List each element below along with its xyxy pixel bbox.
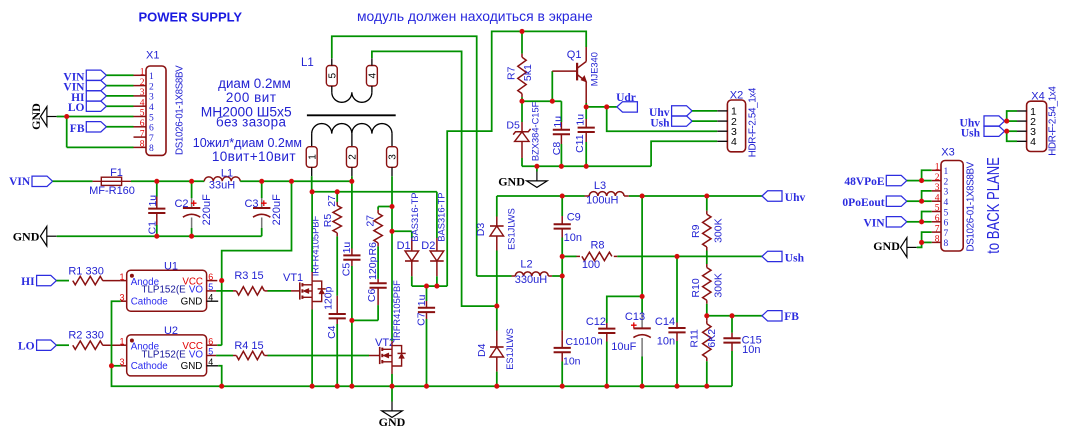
svg-text:GND: GND [873,239,900,253]
junction C1 top [154,179,159,184]
svg-text:6: 6 [208,272,213,282]
wire U2 VCC from vertical [217,344,221,346]
junction 0PoEout [919,199,924,204]
wire VT2 drain up [391,341,393,346]
junction U2 cathode [109,363,114,368]
svg-text:диам 0.2мм: диам 0.2мм [218,76,291,91]
svg-text:8: 8 [935,235,940,245]
power symbol GND below VT2 [391,386,393,401]
global label FB output [762,311,782,321]
wire Udr node [586,106,607,108]
svg-text:220uF: 220uF [201,194,213,225]
svg-text:1u: 1u [341,242,353,254]
junction C13 bottom [640,384,645,389]
svg-text:33uH: 33uH [209,180,235,192]
wire R6 to C6 [377,246,379,279]
junction C7 bottom [424,384,429,389]
svg-text:X2: X2 [730,90,743,102]
junction U1 VCC [219,278,224,283]
U1 pin 5 stub [207,290,217,292]
svg-text:4: 4 [944,198,949,208]
U1 pin 3 stub [121,300,127,302]
svg-text:X3: X3 [941,147,954,159]
svg-text:C13: C13 [625,311,645,323]
svg-text:100: 100 [582,259,600,271]
wire primary drain rail [312,191,437,193]
junction C13 riser [640,193,645,198]
wire [106,95,133,97]
X4 pin 4 stub [1017,140,1027,142]
resistor R6 27 [377,207,379,210]
capacitor C6 120p [377,279,379,283]
svg-text:220uF: 220uF [271,194,283,225]
U2 pin 1 stub [121,344,127,346]
svg-text:Ush: Ush [961,128,981,140]
X3 pin 3 stub [932,190,941,192]
svg-text:3: 3 [935,183,940,193]
junction D1 branch [389,229,394,234]
svg-text:5: 5 [328,73,339,79]
junction C4 bottom [335,384,340,389]
capacitor C9 10n [561,196,563,216]
svg-text:GND: GND [379,415,406,429]
junction D3/D4/pin4 node [494,304,499,309]
svg-text:C5: C5 [340,263,352,277]
wire VIN to F1 [53,180,93,182]
svg-text:D3: D3 [475,223,487,237]
svg-text:R6: R6 [367,242,379,256]
wire R6 branch [378,206,392,208]
svg-text:C2: C2 [174,198,188,210]
svg-text:Cathode: Cathode [131,296,169,307]
svg-text:D4: D4 [476,343,488,357]
svg-text:10n: 10n [584,336,602,348]
U2 pin 5 stub [207,355,217,357]
wire pin3 down to VT2 drain [391,176,393,341]
junction GND X3 [919,240,924,245]
svg-text:IRFR4105PBF: IRFR4105PBF [392,280,402,341]
resistor R7 5k1 [521,31,523,53]
wire F1 to L1 [131,180,204,182]
svg-text:8: 8 [140,140,145,150]
global label Ush output [762,251,782,261]
capacitor C11 1u [585,107,587,119]
junction X1 GND [64,114,69,119]
svg-text:BZX384-C15F: BZX384-C15F [530,101,540,161]
connector X3 DS1026-01-1X8S8BV [941,161,963,252]
svg-text:120p: 120p [323,286,335,310]
svg-text:3: 3 [944,188,949,198]
svg-text:1: 1 [140,68,145,78]
inductor L2 330uH [512,275,516,277]
junction GND stub [534,164,539,169]
svg-text:1: 1 [944,167,949,177]
resistor R10 300K [706,264,708,268]
junction R6 branch [389,204,394,209]
svg-text:BAS316-TP: BAS316-TP [436,193,446,242]
wire R8 to Ush label [617,255,762,257]
wire HI to R1 [56,280,69,282]
X3 pin 1 stub [932,169,941,171]
junction at transformer pin2 [349,179,354,184]
svg-text:Cathode: Cathode [131,361,169,372]
wire Udr node to X2 pin3 [607,107,718,131]
diode D3 ES1JLWS [496,196,498,217]
wire Q1 collector [585,47,587,62]
svg-text:TLP152(E: TLP152(E [142,285,187,296]
junction C14 bottom [674,384,679,389]
svg-text:X4: X4 [1031,90,1044,102]
U1 pin 6 stub [207,280,218,282]
svg-text:GND: GND [181,361,203,372]
svg-text:Uhv: Uhv [785,192,806,204]
svg-text:D5: D5 [506,120,520,132]
wire VT1 drain up [311,272,313,281]
wire [692,110,717,112]
wire D1 anode [392,230,412,232]
svg-text:1u: 1u [147,195,159,207]
X1 pin 4 stub [134,105,147,107]
svg-text:GND: GND [498,175,525,189]
capacitor C14 10n [676,256,678,322]
wire LO to R2 [56,344,69,346]
wire [907,200,922,202]
svg-text:1: 1 [149,72,154,82]
capacitor C7 1u [426,286,428,301]
wire VT2 source down [391,366,393,374]
X1 pin 5 stub [134,116,147,118]
svg-text:3: 3 [388,154,399,160]
svg-text:GND: GND [181,296,203,307]
U2 pin 4 stub [207,365,219,367]
svg-text:R4 15: R4 15 [234,340,263,352]
svg-text:4: 4 [935,193,940,203]
wire [106,74,133,76]
svg-text:U2: U2 [164,325,178,337]
svg-text:27: 27 [326,195,338,207]
svg-text:C14: C14 [655,316,675,328]
svg-text:27: 27 [365,215,377,227]
svg-text:C3: C3 [244,198,258,210]
svg-text:C6: C6 [366,289,378,303]
wire [692,120,717,122]
diode D2 BAS316-TP [436,238,438,251]
svg-text:L2: L2 [520,258,532,270]
svg-text:7: 7 [935,224,940,234]
svg-text:VIN: VIN [9,176,31,188]
svg-text:5: 5 [944,208,949,218]
junction C2 bottom [189,234,194,239]
svg-text:5: 5 [149,113,154,123]
wire [907,221,922,223]
wire [106,105,133,107]
svg-text:R3 15: R3 15 [234,270,263,282]
junction R7/D5/base node [519,99,524,104]
svg-text:FB: FB [70,123,85,135]
junction C15 top [729,313,734,318]
wire L1 to transformer center tap [240,180,352,182]
junction D2 cathode [434,284,439,289]
svg-text:0PoEout: 0PoEout [842,197,884,209]
svg-text:C12: C12 [586,316,606,328]
X2 pin 4 stub [717,140,727,142]
X4 pin 2 stub [1017,120,1027,122]
junction R11 bottom [704,384,709,389]
svg-text:6: 6 [149,124,154,134]
svg-text:2: 2 [149,82,154,92]
wire aux gnd to X2 pin4 [651,141,717,166]
junction C8 bottom [559,164,564,169]
svg-text:C1: C1 [146,221,158,235]
optocoupler U1 TLP152 [127,270,207,311]
svg-text:Q1: Q1 [567,49,582,61]
svg-text:VIN: VIN [864,217,886,229]
junction VT1 drain [310,189,315,194]
svg-text:R1 330: R1 330 [68,266,103,278]
transformer core [307,114,396,116]
X2 pin 3 stub [717,130,727,132]
svg-text:7: 7 [140,129,145,139]
inductor L3 100uH [585,195,590,197]
svg-text:6K2: 6K2 [706,329,718,348]
svg-text:7: 7 [944,229,949,239]
svg-text:5: 5 [208,282,213,292]
svg-text:4: 4 [208,357,213,367]
svg-text:to BACK PLANE: to BACK PLANE [984,157,1003,254]
wire L2 row [477,275,512,277]
junction C5 bottom [349,384,354,389]
junction Q1 base branch [550,99,555,104]
junction C12 bottom [604,384,609,389]
X3 pin 5 stub [932,211,941,213]
junction C5-C6 node [349,318,354,323]
capacitor C10 10n [561,256,563,330]
svg-text:2: 2 [348,154,359,160]
junction C3 top [259,179,264,184]
connector X2 HDR-F-2.54_1x4 [727,100,745,152]
svg-text:FB: FB [784,311,799,323]
svg-text:без зазора: без зазора [216,115,286,130]
wire Ush to X4 pins 3+4 [1005,130,1007,132]
svg-text:HI: HI [21,276,35,288]
transformer pin 4 [366,66,377,87]
svg-text:C9: C9 [567,211,581,223]
junction VCC branch [289,179,294,184]
connector X1 DS1026-01-1X8S8BV [146,66,166,155]
svg-text:TLP152(E: TLP152(E [142,349,187,360]
connector X4 HDR-F-2.54_1x4 [1027,101,1047,151]
svg-text:1: 1 [935,163,940,173]
svg-text:L3: L3 [594,180,606,192]
X3 pin 2 stub [932,180,941,182]
wire R2 to U2 pin1 [103,344,121,346]
capacitor C1 1u [156,181,158,196]
X3 pin 7 stub [932,231,941,233]
svg-text:2: 2 [140,78,145,88]
U1 pin 4 stub [207,300,219,302]
resistor R5 27 [336,192,338,202]
svg-text:R2 330: R2 330 [68,330,103,342]
svg-text:1u: 1u [575,114,587,126]
svg-text:LO: LO [18,341,35,353]
svg-text:6: 6 [944,219,949,229]
zener D5 BZX384-C15F [521,101,523,122]
svg-text:48VPoE: 48VPoE [844,176,885,188]
svg-text:4: 4 [368,73,379,79]
svg-text:U1: U1 [164,260,178,272]
inductor L1 33uH [204,177,240,181]
junction R5 top [335,189,340,194]
svg-text:300K: 300K [712,273,724,298]
wire aux gnd rail [522,165,651,167]
svg-text:6: 6 [208,336,213,346]
X4 pin 3 stub [1017,130,1027,132]
X1 pin 8 stub [134,146,147,148]
svg-text:4: 4 [731,136,737,148]
svg-text:C8: C8 [551,142,563,156]
fuse F1 MF-R160 [101,177,121,185]
svg-text:5: 5 [935,204,940,214]
svg-text:GND: GND [13,229,40,243]
svg-text:300K: 300K [712,218,724,243]
svg-text:5: 5 [208,347,213,357]
svg-text:DS1026-01-1X8S8BV: DS1026-01-1X8S8BV [174,65,185,155]
svg-text:VO: VO [189,349,204,360]
wire C13 riser [641,196,643,296]
svg-text:C10: C10 [566,337,585,348]
svg-text:D2: D2 [421,240,435,252]
wire R1 to U1 pin1 [103,280,121,282]
wire VT1 source down [311,302,313,310]
transformer pin 5 [326,66,337,87]
svg-text:3: 3 [140,88,145,98]
wire VIN rail to opto VCC [222,181,292,345]
junction R7 top [519,29,524,34]
junction C14 top [674,254,679,259]
resistor R11 6K2 [706,316,708,321]
wire [106,126,133,128]
junction R9 top [704,193,709,198]
wire pin2 down to C5 [351,176,353,181]
svg-text:1: 1 [307,154,318,160]
svg-text:POWER SUPPLY: POWER SUPPLY [139,10,243,25]
wire U2 pin4 to GND rail [218,366,222,386]
svg-text:2: 2 [944,177,949,187]
junction U2 GND at rail [219,384,224,389]
wire D2 cathode down [436,276,438,286]
svg-text:8: 8 [944,239,949,249]
X1 pin 3 stub [134,95,147,97]
X1 pin 7 stub [134,136,147,138]
junction Uhv X4 [1004,119,1009,124]
svg-text:VT1: VT1 [283,272,303,284]
wire GND to X1 pin5 [57,116,134,118]
junction VT2 source [389,384,394,389]
wire GND down to X1 pin8 [66,117,68,148]
svg-text:C11: C11 [574,134,586,153]
X2 pin 1 stub [717,110,727,112]
junction Q1 emitter node [584,104,589,109]
svg-text:F1: F1 [110,167,123,179]
X3 pin 4 stub [932,200,941,202]
svg-text:10n: 10n [564,232,582,244]
junction FB node [704,313,709,318]
junction C1 bottom [154,234,159,239]
X1 pin 1 stub [134,74,147,76]
svg-text:R8: R8 [590,240,604,252]
junction L2 out [560,273,565,278]
junction C7 top [424,284,429,289]
X2 pin 2 stub [717,120,727,122]
svg-text:10uF: 10uF [611,341,636,353]
diode D4 ES1JLWS [496,306,498,330]
svg-text:MJE340: MJE340 [590,52,600,86]
wire pin4 to secondary-side riser [372,51,497,306]
U1 pin 1 stub [121,280,127,282]
resistor R4 15 [233,355,236,357]
svg-text:4: 4 [1030,136,1036,148]
capacitor C13 10uF polarized [641,296,643,313]
junction C12 branch [640,294,645,299]
svg-text:10вит+10вит: 10вит+10вит [212,149,296,164]
wire C6 bottom to C5 node [352,319,378,321]
U2 pin 6 stub [207,344,218,346]
svg-text:C7: C7 [415,312,427,326]
svg-text:VO: VO [189,285,204,296]
svg-text:R7: R7 [506,66,518,80]
svg-text:ES1JLWS: ES1JLWS [505,328,515,370]
resistor R8 100 [562,255,576,257]
svg-text:6: 6 [140,119,145,129]
secondary winding [312,124,392,134]
resistor R1 330 [73,276,103,284]
power symbol GND aux [536,166,538,171]
junction Udr branch [604,104,609,109]
junction C9 top [560,193,565,198]
junction C9 bottom / R8 node [560,254,565,259]
diode D1 BAS316-TP [411,238,413,251]
wire main bottom rail [222,385,732,387]
svg-text:4: 4 [140,98,145,108]
svg-text:R11: R11 [689,329,701,348]
wire pin5 to secondary-side riser [332,36,477,276]
svg-text:1u: 1u [552,116,564,128]
transformer pin 3 [387,147,398,168]
svg-text:LO: LO [68,102,85,114]
junction C2 top [189,179,194,184]
global label Uhv output [762,191,782,201]
X4 pin 1 stub [1017,110,1027,112]
wire D1 cathode down [411,276,413,286]
svg-text:BAS316-TP: BAS316-TP [410,193,420,242]
svg-text:ES1JLWS: ES1JLWS [506,208,516,250]
X1 pin 2 stub [134,85,147,87]
svg-text:Ush: Ush [650,117,670,129]
svg-text:10жил*диам 0.2мм: 10жил*диам 0.2мм [193,136,302,150]
svg-text:R5: R5 [322,214,334,228]
svg-text:MF-R160: MF-R160 [89,185,135,197]
capacitor C5 1u [351,249,353,256]
capacitor C12 10n [606,323,608,329]
junction 48VPoE [919,178,924,183]
svg-text:7: 7 [149,134,154,144]
svg-text:L1: L1 [301,57,314,69]
junction D4 bottom [494,384,499,389]
svg-text:X1: X1 [146,50,159,62]
capacitor C3 220uF polarized [261,181,263,198]
wire L3 to Uhv label [629,195,762,197]
svg-text:R9: R9 [690,224,702,238]
